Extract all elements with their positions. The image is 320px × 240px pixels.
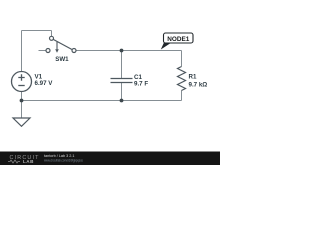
node label NODE1 pointer [161,43,172,50]
wire down to R1 top [181,51,183,67]
svg-text:9.7 F: 9.7 F [134,80,148,87]
junction node top (C1 / main wire) [120,49,124,53]
ground [13,118,30,126]
svg-text:9.7 kΩ: 9.7 kΩ [189,81,208,88]
wire C1 top lead [121,51,123,79]
wire C1 bottom lead [121,83,123,101]
voltage source V1 [12,72,32,92]
svg-text:tantorb / Lab 3 2.1: tantorb / Lab 3 2.1 [44,153,75,158]
wire into SW1 common [51,31,53,37]
resistor R1 [178,67,186,91]
wire ground lead [21,101,23,119]
junction node bottom left (V1 / ground) [20,99,24,103]
wire top horizontal [22,30,52,32]
wire V1 bottom [21,92,23,101]
svg-text:www.circuitlab.com/c6r9tgkpqsc: www.circuitlab.com/c6r9tgkpqsce [44,159,83,163]
SW1 lever [53,39,72,49]
watermark bar [0,152,220,166]
SW1 actuation arrow [56,42,58,50]
svg-text:LAB: LAB [23,159,34,164]
svg-text:R1: R1 [189,73,197,80]
junction node bottom (C1 / bottom wire) [120,99,124,103]
switch SW1 [46,36,76,52]
wire SW1 left throw stub [39,50,47,52]
wire R1 bottom lead [181,91,183,101]
svg-text:NODE1: NODE1 [167,36,189,43]
wire V1 top to top-left corner [21,31,23,72]
svg-text:SW1: SW1 [55,56,69,63]
wire bottom horizontal [22,100,182,102]
svg-text:6.97 V: 6.97 V [35,80,54,87]
node label NODE1 [164,33,194,43]
CircuitLab logo squiggle [8,160,20,163]
capacitor C1 [111,79,133,83]
wire SW1 right terminal to top-right corner [76,50,182,52]
